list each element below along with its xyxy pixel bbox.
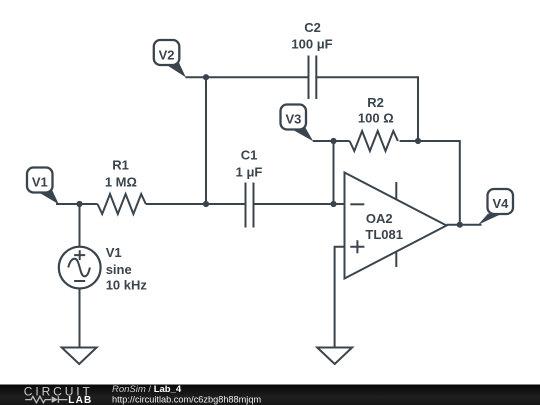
label R2 value <box>358 95 394 126</box>
wire source to ground <box>79 289 81 348</box>
svg-text:V1: V1 <box>32 175 48 190</box>
svg-text:V3: V3 <box>285 112 301 127</box>
svg-text:R2: R2 <box>367 95 384 110</box>
wire plus input <box>335 247 345 348</box>
label R1 value <box>105 158 137 190</box>
wire V2 row <box>185 76 308 78</box>
CircuitLab logo <box>24 385 93 405</box>
node flag V1 <box>27 168 59 205</box>
junction minus input <box>330 201 336 207</box>
resistor R2 <box>350 131 398 151</box>
footer bar <box>0 385 540 405</box>
svg-text:V2: V2 <box>159 48 175 63</box>
junction C1 top wire <box>203 201 209 207</box>
node flag V4 <box>478 189 513 225</box>
junction output node <box>457 222 463 228</box>
ground (below V1) <box>62 348 97 365</box>
op-amp OA2 <box>345 173 447 279</box>
svg-text:1 MΩ: 1 MΩ <box>105 174 137 189</box>
svg-text:100 μF: 100 μF <box>291 36 332 51</box>
wire main row left segment <box>56 203 98 205</box>
wire R2 to output corner <box>400 141 460 225</box>
svg-text:TL081: TL081 <box>365 227 403 242</box>
svg-text:RonSim / Lab_4: RonSim / Lab_4 <box>112 384 182 395</box>
svg-text:V1: V1 <box>106 245 122 260</box>
label V1 sine 10 kHz <box>106 245 148 293</box>
svg-text:1 μF: 1 μF <box>236 164 263 179</box>
svg-text:C1: C1 <box>241 147 258 162</box>
ground (below op-amp) <box>317 348 352 365</box>
svg-text:100 Ω: 100 Ω <box>358 111 394 126</box>
junction R2-C2 <box>415 138 421 144</box>
node flag V3 <box>281 105 314 142</box>
wire C1 to op-amp minus input <box>254 203 345 205</box>
label OA2 TL081 <box>365 211 403 242</box>
voltage source V1 <box>59 247 101 289</box>
svg-text:LAB: LAB <box>68 395 92 405</box>
svg-text:10 kHz: 10 kHz <box>106 278 148 293</box>
capacitor C1 <box>246 183 254 228</box>
wire V1 source branch <box>79 204 81 247</box>
svg-text:R1: R1 <box>112 158 129 173</box>
wire V2 vertical <box>205 77 207 204</box>
label C1 value <box>236 147 263 179</box>
wire C2 right to feedback corner <box>316 77 418 141</box>
junction V2 node <box>203 74 209 80</box>
wire V3 vertical <box>333 141 335 204</box>
resistor R1 <box>98 194 146 214</box>
junction V3 node <box>330 138 336 144</box>
capacitor C2 <box>309 56 317 100</box>
svg-text:http://circuitlab.com/c6zbg8h8: http://circuitlab.com/c6zbg8h88mjqm <box>112 395 261 405</box>
wire V3 row <box>313 140 350 142</box>
wire R1 to C1 <box>146 203 246 205</box>
svg-text:sine: sine <box>106 262 132 277</box>
svg-text:OA2: OA2 <box>366 211 393 226</box>
label C2 value <box>291 20 332 52</box>
junction V1-source node <box>76 201 82 207</box>
node flag V2 <box>154 40 186 77</box>
footer title text <box>112 384 261 405</box>
wire output row <box>447 224 482 226</box>
svg-text:C2: C2 <box>304 20 321 35</box>
svg-text:V4: V4 <box>492 196 509 211</box>
